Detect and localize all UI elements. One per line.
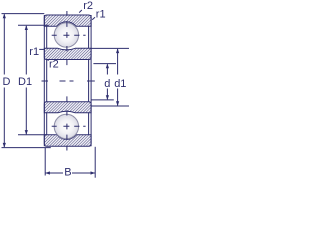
outer ring bottom section — [44, 135, 91, 147]
svg-text:D1: D1 — [18, 76, 32, 88]
inner ring bottom section — [44, 102, 91, 113]
top ball centerlines — [52, 11, 86, 65]
axis centerline — [42, 80, 95, 82]
svg-text:r2: r2 — [49, 58, 59, 70]
svg-text:d: d — [104, 78, 110, 90]
right chamfer edge line — [88, 26, 90, 135]
svg-text:D: D — [3, 76, 11, 88]
inner ring top section — [44, 48, 91, 59]
svg-text:B: B — [64, 167, 71, 179]
dimension B — [45, 147, 95, 178]
svg-text:r1: r1 — [29, 46, 39, 58]
dimension d — [91, 64, 116, 100]
left chamfer edge line — [46, 26, 48, 135]
dimension d1 — [91, 48, 129, 106]
dimension D — [2, 14, 51, 148]
dimension D1 — [18, 25, 49, 135]
ball top — [54, 23, 78, 47]
bottom ball centerlines — [52, 96, 86, 150]
ball bottom — [54, 114, 78, 138]
svg-text:r1: r1 — [96, 9, 106, 21]
outer ring top section — [44, 15, 91, 26]
svg-text:r2: r2 — [83, 0, 93, 12]
left face line — [43, 15, 45, 146]
right face line — [90, 15, 92, 146]
svg-text:d1: d1 — [114, 78, 126, 90]
